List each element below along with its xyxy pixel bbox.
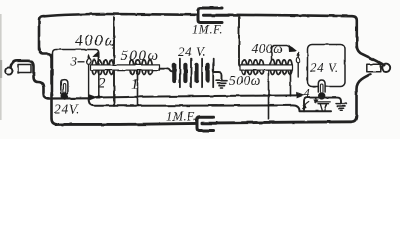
wire outer border left upper edge bbox=[39, 16, 58, 124]
right tap wire and arrow 4 bbox=[272, 46, 288, 61]
wire battery right lead bbox=[213, 72, 221, 80]
svg-text:1: 1 bbox=[131, 77, 139, 93]
svg-text:24V.: 24V. bbox=[54, 102, 80, 117]
svg-text:500ω: 500ω bbox=[229, 73, 261, 88]
arrow on bus A pointing right bbox=[89, 94, 97, 100]
wire under right lamp bbox=[304, 98, 341, 112]
wire outer border top edge bbox=[44, 14, 352, 16]
label 4 arrow bbox=[304, 102, 309, 107]
terminal right circle bbox=[382, 64, 390, 72]
inductor coil 2 loops bbox=[92, 60, 114, 75]
svg-text:400ω: 400ω bbox=[75, 32, 118, 49]
wire coil baseline to battery bbox=[160, 69, 175, 72]
lamp left 2.4V bbox=[61, 80, 68, 94]
arrow tap 3 pointing at slider bbox=[92, 51, 98, 58]
wire right coil mid lead bbox=[268, 70, 270, 119]
wire left terminal lead bbox=[11, 61, 50, 99]
svg-text:24 V.: 24 V. bbox=[178, 44, 207, 59]
svg-text:1M.F.: 1M.F. bbox=[192, 23, 223, 37]
capacitor C-bottom middle plate bbox=[202, 122, 217, 125]
inductor core bar right bbox=[240, 65, 293, 70]
capacitor C-top 1 M.F. left electrode bbox=[198, 8, 222, 23]
capacitor C-bottom 1 M.F. left electrode bbox=[197, 117, 214, 130]
wire bus B row bbox=[89, 99, 331, 112]
capacitor C-top middle plate bbox=[204, 14, 229, 17]
terminal right block bbox=[367, 64, 381, 72]
battery 2.4V plates bbox=[174, 65, 207, 81]
svg-text:400ω: 400ω bbox=[252, 41, 284, 56]
left tap box wire (around 400 ohm label) bbox=[53, 50, 99, 97]
terminal left circle bbox=[5, 67, 12, 74]
wire outer border bottom edge bbox=[58, 122, 352, 125]
svg-text:500ω: 500ω bbox=[121, 48, 160, 64]
dash after 3 bbox=[78, 61, 85, 63]
inductor right coil loops group A bbox=[242, 60, 264, 75]
wire outer border right edge upper bbox=[352, 16, 384, 65]
junction dots bbox=[63, 94, 291, 107]
svg-text:24 V.: 24 V. bbox=[310, 60, 339, 75]
inductor core bar left bbox=[91, 65, 160, 70]
wire bus A lamp row bbox=[52, 97, 89, 99]
terminal left block bbox=[18, 65, 31, 73]
svg-text:2: 2 bbox=[98, 76, 106, 92]
svg-text:3: 3 bbox=[70, 54, 78, 69]
key contact symbol bbox=[315, 98, 317, 100]
scan artifact left edge bbox=[0, 14, 2, 120]
wire drop from top border to left coil tap bbox=[113, 17, 115, 106]
ground solid triangle right bbox=[336, 104, 347, 111]
wire outer border right edge lower bbox=[351, 74, 371, 121]
slider needle right bbox=[297, 53, 299, 77]
slider needle left bbox=[88, 56, 90, 100]
wire right coil right lead bbox=[290, 70, 292, 95]
svg-text:4: 4 bbox=[304, 87, 310, 101]
svg-text:1M.F.: 1M.F. bbox=[166, 110, 197, 124]
wire drop from top border to right coil bbox=[239, 17, 242, 67]
box around right lamp 2.4V bbox=[308, 45, 346, 87]
lamp right 2.4V bbox=[318, 80, 325, 92]
inductor coil 1 loops bbox=[130, 60, 153, 75]
inductor right coil loops group B bbox=[270, 60, 292, 75]
ground hatched below battery bbox=[216, 81, 227, 88]
wire coil lead down x137 bbox=[137, 70, 139, 105]
